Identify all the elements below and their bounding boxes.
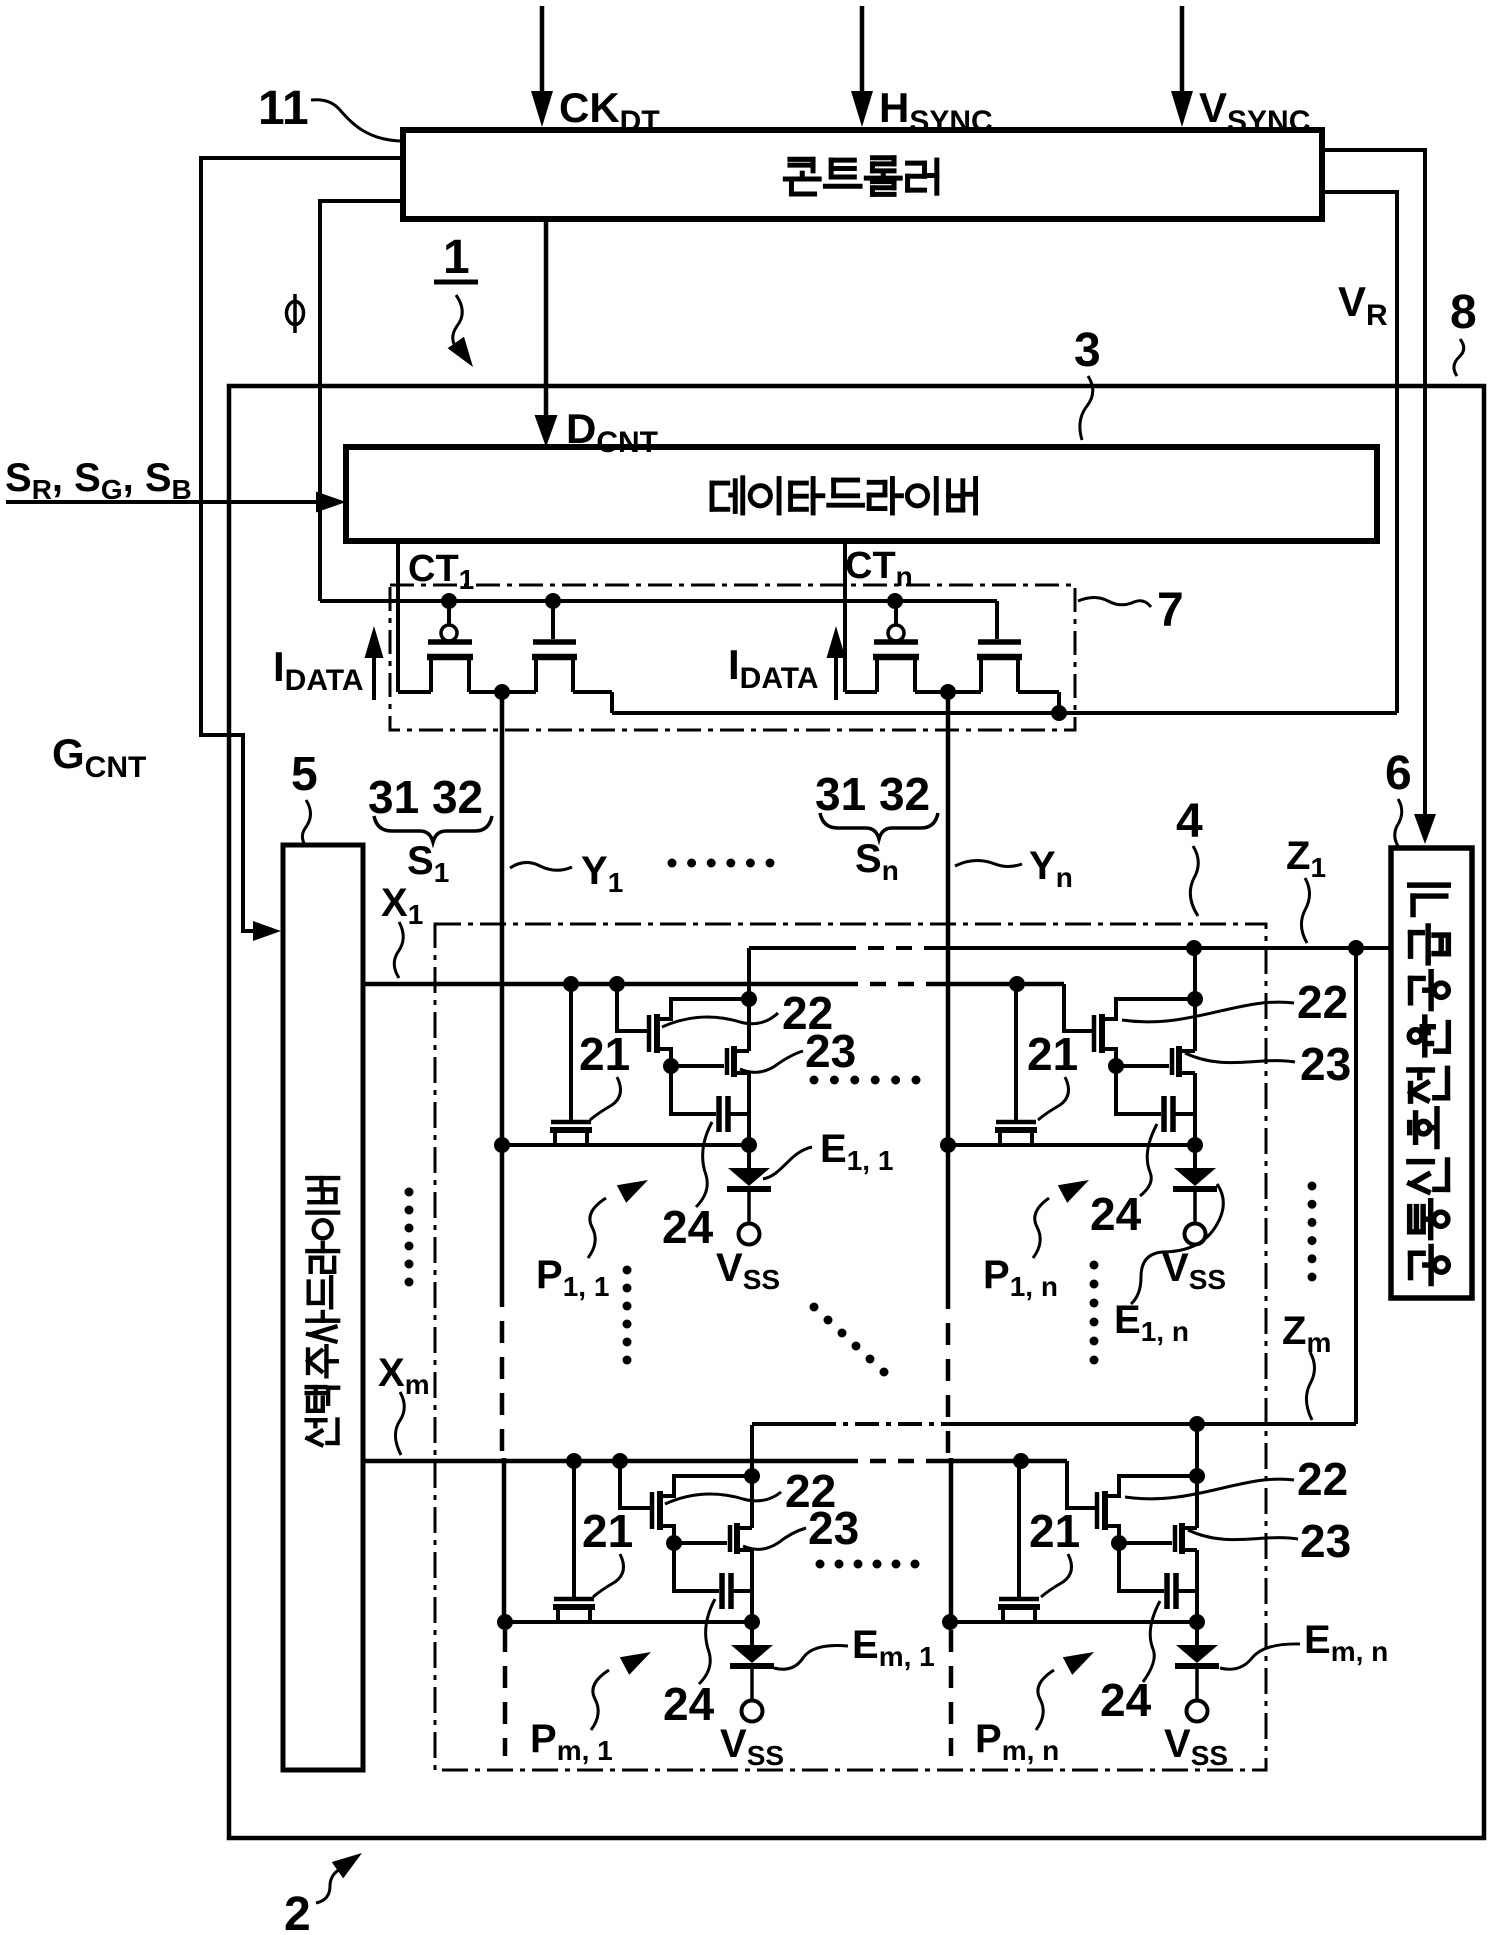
- wire gate node to T23: [674, 1541, 727, 1545]
- Z feed vertical: [1195, 1425, 1199, 1528]
- mirror source wire: [845, 690, 877, 694]
- controller label text: [785, 159, 819, 194]
- VSS terminal: [1185, 1224, 1206, 1245]
- leader 21: [1041, 1554, 1072, 1597]
- leader for Yn: [955, 860, 1022, 866]
- leader 24: [1140, 1124, 1157, 1196]
- svg-text:2: 2: [284, 1888, 311, 1935]
- pixel transistor 22: [1095, 1492, 1100, 1529]
- row select line Xm: [363, 1459, 842, 1464]
- capacitor 24: [674, 1543, 719, 1591]
- common line Z1: [749, 946, 840, 950]
- svg-text:3: 3: [1074, 324, 1101, 377]
- pixel node wire to LED: [950, 1620, 1197, 1624]
- node LED anode: [744, 1614, 760, 1630]
- phi symbol: [287, 302, 304, 325]
- ellipsis X rows: [405, 1188, 414, 1197]
- node mirror output join: [1051, 705, 1067, 721]
- arrow IDATA left: [372, 644, 376, 700]
- ellipsis Z bus: [1308, 1182, 1317, 1191]
- leader 22: [1122, 1002, 1294, 1022]
- svg-text:24: 24: [663, 1678, 715, 1730]
- leader 24: [696, 1122, 712, 1207]
- svg-text:5: 5: [291, 748, 318, 801]
- leader 23: [1188, 1530, 1298, 1540]
- pixel transistor 22 gate lead: [1067, 1461, 1098, 1508]
- pixel transistor 23: [1170, 1048, 1175, 1075]
- svg-text:21: 21: [1027, 1028, 1078, 1080]
- node T22 drain on Z: [741, 991, 757, 1007]
- wire gate node to T23: [671, 1064, 724, 1068]
- leader arrow Pm,n: [1036, 1670, 1054, 1730]
- svg-text:11: 11: [258, 82, 309, 135]
- mirror source wire: [398, 690, 431, 694]
- ellipsis between Y1 and Sn: [668, 859, 677, 868]
- ellipsis pixel col right: [1090, 1261, 1099, 1270]
- Z feed vertical: [1193, 948, 1197, 1051]
- gate control line CT: [320, 599, 997, 603]
- common supply label text (vertical): [1411, 1247, 1449, 1284]
- leader for Y1: [510, 862, 572, 870]
- svg-text:8: 8: [1450, 286, 1477, 339]
- LED organic EL element: [747, 1145, 751, 1168]
- LED organic EL element: [1193, 1145, 1197, 1168]
- node LED anode: [1187, 1137, 1203, 1153]
- transistor 32: [995, 601, 999, 639]
- pixel transistor 21: [554, 1597, 594, 1602]
- pixel transistor 21 gate lead: [1014, 984, 1018, 1121]
- svg-text:22: 22: [1297, 1453, 1348, 1505]
- wire SR SG SB into data driver: [6, 500, 332, 504]
- ellipsis rowm mid: [816, 1560, 825, 1569]
- leader for Xm: [395, 1392, 404, 1455]
- node Xm T21 tap Pmn: [1013, 1453, 1029, 1469]
- svg-text:7: 7: [1157, 584, 1184, 637]
- display panel box 2: [229, 386, 1484, 1838]
- selection scan driver box 5: [283, 845, 363, 1770]
- leader 24: [1143, 1601, 1160, 1682]
- row select line X1: [363, 982, 842, 987]
- input signal line HSYNC: [860, 6, 865, 100]
- mirror input wire from data driver: [843, 541, 847, 692]
- column line Yn: [946, 690, 951, 1287]
- pixel transistor 22: [650, 1492, 655, 1529]
- leader 22: [1125, 1479, 1294, 1499]
- svg-text:23: 23: [1300, 1515, 1351, 1567]
- capacitor 24: [671, 1066, 716, 1114]
- leader arrow P1,1: [588, 1198, 606, 1258]
- node on column Y: [497, 1614, 513, 1630]
- column line Y1: [500, 692, 505, 1285]
- wire to step-down: [1018, 690, 1059, 694]
- node T22 drain on Z: [744, 1468, 760, 1484]
- underbrace left: [374, 816, 492, 842]
- wire T22 source to gate node: [1105, 1526, 1119, 1543]
- transistor 31 (p-type, gate bubble): [894, 601, 898, 625]
- pixel transistor 21 gate lead: [569, 984, 573, 1121]
- capacitor 24: [1116, 1066, 1161, 1114]
- svg-text:23: 23: [808, 1502, 859, 1554]
- node Xm T21 tap Pm1: [566, 1453, 582, 1469]
- svg-text:21: 21: [582, 1505, 633, 1557]
- pixel transistor 22: [1092, 1015, 1097, 1052]
- pixel node wire to LED: [505, 1620, 752, 1624]
- pixel node wire to LED: [948, 1143, 1195, 1147]
- node gate of T23: [663, 1058, 679, 1074]
- pixel array dash-dot box 4: [435, 924, 1266, 1770]
- wire gate node to T23: [1116, 1064, 1169, 1068]
- common line Zm: [752, 1422, 812, 1426]
- leader arrow for 1: [453, 295, 463, 350]
- wire gate node to T23: [1119, 1541, 1172, 1545]
- leader 21: [593, 1554, 624, 1597]
- leader 21: [1038, 1077, 1069, 1120]
- pixel transistor 21: [996, 1120, 1036, 1125]
- leader 23: [740, 1051, 803, 1072]
- ellipsis diagonal: [810, 1303, 819, 1312]
- pixel transistor 23: [1173, 1525, 1178, 1552]
- data driver label text: [712, 478, 743, 513]
- wire VR from controller to mirror output line: [1322, 192, 1397, 713]
- node mirror output to column: [494, 684, 510, 700]
- node on column Y: [494, 1137, 510, 1153]
- leader line for 3: [1080, 376, 1093, 440]
- pixel transistor 21 gate lead: [1017, 1461, 1021, 1598]
- data driver box U3: [346, 447, 1377, 541]
- pixel transistor 22 gate lead: [620, 1461, 651, 1508]
- input signal line VSYNC: [1180, 6, 1185, 100]
- pixel transistor 21: [999, 1597, 1039, 1602]
- pixel transistor 21 gate lead: [572, 1461, 576, 1598]
- leader 21: [590, 1077, 621, 1120]
- leader E1,1: [763, 1147, 812, 1179]
- leader line for 7: [1078, 598, 1151, 608]
- wire phi from controller: [320, 201, 403, 601]
- Z feed vertical: [747, 948, 751, 1051]
- LED organic EL element: [1195, 1622, 1199, 1645]
- common signal power supply box 6: [1391, 848, 1472, 1298]
- leader 22: [662, 1013, 778, 1027]
- svg-text:24: 24: [662, 1201, 714, 1253]
- arrow GCNT into scan driver: [253, 921, 281, 941]
- ellipsis row1 mid: [810, 1076, 819, 1085]
- svg-text:31 32: 31 32: [368, 771, 483, 823]
- node on column Y: [942, 1614, 958, 1630]
- svg-text:1: 1: [443, 231, 470, 284]
- node CT1 tap T32: [545, 593, 561, 609]
- leader for Zm: [1306, 1352, 1314, 1420]
- leader 23: [1185, 1053, 1295, 1063]
- node Zm to pixel Pmn: [1189, 1416, 1205, 1432]
- node CT1 tap T31: [441, 593, 457, 609]
- pixel node wire to LED: [502, 1143, 749, 1147]
- node Z1 to pixel P1n: [1186, 940, 1202, 956]
- node T22 drain on Z: [1187, 991, 1203, 1007]
- leader for X1: [394, 922, 403, 978]
- svg-text:31 32: 31 32: [815, 768, 930, 820]
- pixel transistor 23: [728, 1525, 733, 1552]
- svg-text:22: 22: [1297, 976, 1348, 1028]
- svg-text:23: 23: [805, 1025, 856, 1077]
- capacitor 24: [1119, 1543, 1164, 1591]
- leader for Z1: [1301, 878, 1309, 943]
- underbrace right: [820, 813, 938, 839]
- node gate of T23: [1111, 1535, 1127, 1551]
- LED organic EL element: [750, 1622, 754, 1645]
- leader for 5: [302, 800, 310, 843]
- leader arrow P1,n: [1033, 1198, 1049, 1258]
- mirror common output line: [612, 711, 1397, 715]
- pixel transistor 22 gate lead: [1064, 984, 1095, 1031]
- svg-text:4: 4: [1176, 795, 1203, 848]
- leader 22: [665, 1492, 781, 1504]
- scan driver label text (vertical): [307, 1420, 338, 1445]
- input signal line CKDT: [540, 6, 545, 100]
- leader arrow for 2: [316, 1868, 342, 1903]
- leader arrow Pm,1: [591, 1670, 609, 1730]
- current source block 7 (dash-dot box): [390, 585, 1075, 730]
- node X1 T22 tap P11: [609, 976, 625, 992]
- leader 23: [743, 1528, 806, 1549]
- wire DCNT controller to data driver: [544, 219, 549, 433]
- transistor 32: [551, 601, 555, 639]
- VSS terminal: [1187, 1701, 1208, 1722]
- VSS terminal: [739, 1224, 760, 1245]
- leader for 6: [1395, 799, 1402, 846]
- VSS terminal: [742, 1701, 763, 1722]
- pixel transistor 22 gate lead: [617, 984, 648, 1031]
- node X1 T21 tap P1n: [1009, 976, 1025, 992]
- leader line for 8: [1454, 339, 1464, 376]
- node gate of T23: [666, 1535, 682, 1551]
- transistor 31 (p-type, gate bubble): [447, 601, 451, 625]
- wire to step-down: [573, 690, 612, 694]
- leader line for 11: [311, 100, 400, 141]
- leader for 4: [1190, 846, 1198, 916]
- svg-text:6: 6: [1385, 747, 1412, 800]
- svg-text:24: 24: [1090, 1188, 1142, 1240]
- wire GCNT from controller: [201, 158, 403, 931]
- node Z1 to Z bus: [1348, 940, 1364, 956]
- leader 24: [699, 1599, 715, 1684]
- svg-text:21: 21: [579, 1028, 630, 1080]
- wire VCC from controller to common supply: [1322, 150, 1425, 828]
- node gate of T23: [1108, 1058, 1124, 1074]
- node LED anode: [1189, 1614, 1205, 1630]
- svg-text:23: 23: [1300, 1038, 1351, 1090]
- wire T22 source to gate node: [657, 1049, 671, 1066]
- arrow IDATA right: [834, 644, 838, 700]
- pixel transistor 23: [725, 1048, 730, 1075]
- Z feed vertical: [750, 1425, 754, 1528]
- node X1 T21 tap P11: [563, 976, 579, 992]
- node mirror output to column: [940, 684, 956, 700]
- leader Em,n: [1220, 1644, 1300, 1669]
- node Xm T22 tap Pm1: [612, 1453, 628, 1469]
- wire T22 source to gate node: [1102, 1049, 1116, 1066]
- node T22 drain on Z: [1189, 1468, 1205, 1484]
- node on column Y: [940, 1137, 956, 1153]
- wire T22 source to gate node: [660, 1526, 674, 1543]
- leader Em,1: [774, 1646, 848, 1670]
- svg-text:21: 21: [1029, 1505, 1080, 1557]
- arrow into common signal supply box: [1414, 814, 1436, 844]
- leader E1,n: [1131, 1184, 1223, 1304]
- controller U-CTRL box: [403, 130, 1322, 219]
- ellipsis pixel col left: [623, 1266, 632, 1275]
- Z bus vertical: [1354, 948, 1358, 1424]
- pixel transistor 21: [551, 1120, 591, 1125]
- pixel transistor 22: [647, 1015, 652, 1052]
- node LED anode: [741, 1137, 757, 1153]
- node CTn tap T31: [887, 593, 903, 609]
- mirror input wire from data driver: [396, 541, 400, 692]
